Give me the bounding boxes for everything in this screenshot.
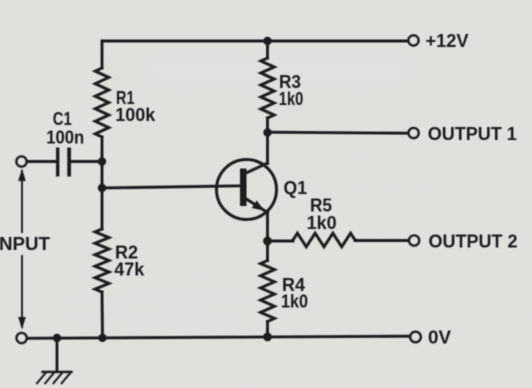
svg-text:100n: 100n [46,128,84,148]
svg-text:OUTPUT 1: OUTPUT 1 [428,124,517,144]
svg-text:+12V: +12V [426,31,469,51]
svg-text:Q1: Q1 [284,178,308,198]
svg-text:100k: 100k [115,105,156,125]
svg-text:OUTPUT 2: OUTPUT 2 [429,232,518,252]
svg-text:NPUT: NPUT [0,234,50,254]
svg-text:C1: C1 [53,109,72,129]
svg-text:1k0: 1k0 [279,89,304,109]
svg-text:1k0: 1k0 [281,292,308,312]
svg-text:0V: 0V [428,328,451,348]
svg-text:47k: 47k [114,260,145,280]
svg-text:1k0: 1k0 [307,213,337,233]
